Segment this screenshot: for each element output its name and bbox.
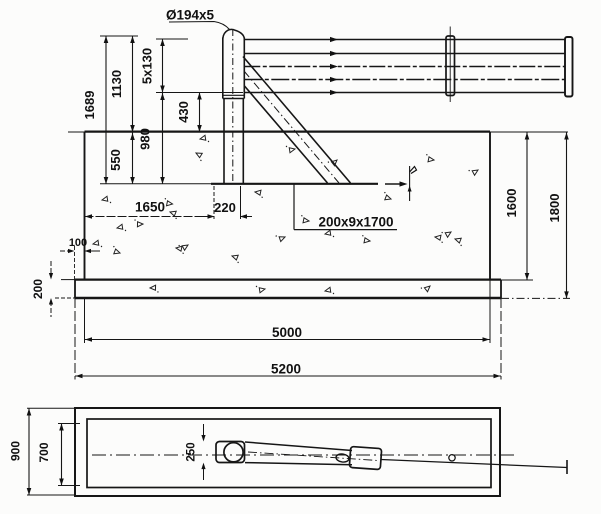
extension line bottom pipe	[156, 92, 243, 94]
guy pipe 1	[244, 39, 565, 41]
plan inner rectangle	[87, 419, 491, 488]
dimension 250	[203, 424, 205, 440]
dimension 5200	[75, 375, 501, 377]
plan brace head	[349, 446, 381, 469]
concrete block top edge	[68, 131, 568, 133]
svg-text:Ø194x5: Ø194x5	[166, 8, 215, 23]
svg-text:430: 430	[176, 101, 191, 123]
dimension 430	[199, 93, 201, 133]
svg-text:5200: 5200	[271, 362, 301, 377]
pole collar joint	[223, 94, 245, 96]
extension line pole top	[100, 35, 138, 37]
extension line anchor level	[100, 183, 211, 185]
dimension 100	[60, 250, 74, 252]
svg-text:1650: 1650	[135, 200, 165, 215]
dimension 1600	[526, 133, 528, 281]
svg-text:700: 700	[37, 442, 51, 462]
diagonal brace centerline	[244, 71, 339, 183]
svg-text:100: 100	[69, 237, 87, 249]
diagonal brace lower edge	[245, 86, 328, 183]
svg-text:5x130: 5x130	[140, 48, 155, 84]
pole centerline	[232, 29, 234, 184]
guy pipe 3	[244, 66, 565, 68]
plan pole section	[216, 442, 245, 463]
slab bottom dash extension	[501, 297, 570, 299]
extension lines bottom	[84, 298, 86, 343]
pole body right edge	[242, 99, 244, 184]
plan anchor rod	[381, 460, 567, 468]
concrete block right edge	[489, 132, 491, 280]
svg-text:200: 200	[31, 279, 45, 299]
svg-text:980: 980	[138, 128, 153, 150]
dimension 5000	[85, 339, 491, 341]
svg-text:1600: 1600	[504, 189, 519, 218]
svg-text:200x9x1700: 200x9x1700	[318, 215, 393, 230]
dimension 980	[160, 93, 165, 100]
dimension 550	[130, 133, 135, 140]
guy pipe 2	[244, 53, 565, 55]
svg-text:1130: 1130	[109, 70, 124, 98]
concrete block left edge	[84, 132, 86, 280]
extension line 5x130 top	[156, 38, 188, 40]
pole body left edge	[223, 99, 225, 184]
plate thickness dim	[409, 166, 411, 201]
svg-text:1689: 1689	[82, 91, 97, 120]
dimension 1689	[105, 36, 107, 184]
pipe clamp bracket	[446, 36, 455, 96]
foundation slab	[75, 279, 501, 281]
plan brace slot	[336, 453, 350, 463]
plan centerline	[92, 454, 516, 456]
dimension 220	[213, 186, 215, 219]
pole sleeve left edge	[222, 38, 224, 99]
plan bolt circle	[449, 455, 455, 461]
dimension 1650	[85, 216, 215, 218]
pole dome cap	[223, 29, 245, 38]
leader 200x9x1700	[293, 184, 295, 230]
dimension 700	[61, 424, 63, 486]
svg-text:220: 220	[214, 200, 236, 215]
aggregate marks	[200, 135, 209, 142]
dimension 900	[28, 409, 30, 496]
diagonal brace upper edge	[243, 57, 351, 184]
svg-text:250: 250	[186, 442, 198, 461]
svg-text:900: 900	[9, 441, 23, 461]
pipe end plate	[565, 37, 573, 97]
guy pipe 5	[244, 92, 565, 94]
dimension 1130	[132, 36, 134, 184]
svg-text:550: 550	[108, 149, 123, 171]
pole sleeve right edge	[243, 38, 245, 99]
dimension 1800	[566, 133, 568, 299]
plan brace tube	[245, 442, 352, 451]
dimension 200	[50, 261, 52, 277]
plan outer rectangle	[75, 408, 500, 496]
anchor plate line	[211, 183, 378, 185]
guy pipe 4	[244, 79, 565, 81]
svg-text:5000: 5000	[272, 325, 302, 340]
svg-text:1800: 1800	[547, 194, 562, 223]
dimension 5x130	[162, 39, 164, 184]
